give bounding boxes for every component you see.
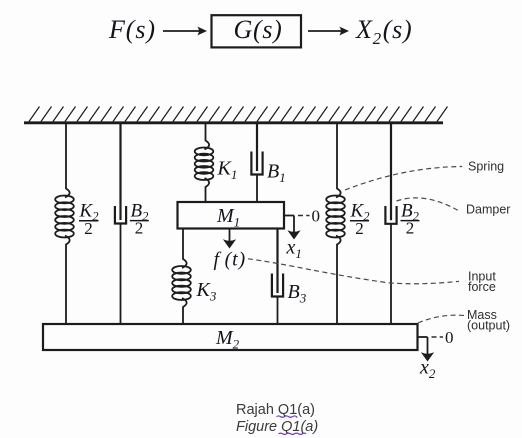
- ground: fixed ceiling support: [24, 121, 443, 124]
- wire: rod below B2/2 right: [390, 224, 392, 324]
- arrow x1 displacement: [293, 216, 295, 234]
- spring K1 coil: [195, 148, 214, 181]
- wire: rod above K2/2 left: [65, 124, 70, 198]
- wire: rod below B2/2 left: [120, 224, 122, 325]
- svg-text:force: force: [468, 280, 496, 294]
- wire: rod above K2/2 right: [336, 124, 341, 198]
- svg-text:B1: B1: [267, 161, 286, 186]
- svg-text:0: 0: [445, 328, 454, 347]
- svg-text:Damper: Damper: [466, 203, 510, 217]
- svg-text:M1: M1: [216, 205, 240, 230]
- svg-text:x1: x1: [286, 237, 302, 262]
- svg-text:2: 2: [355, 219, 364, 238]
- wire: step at right of M2 to reference 0: [418, 336, 428, 338]
- damper B3 cup: [272, 274, 283, 297]
- damper B2/2 right cup: [385, 206, 396, 224]
- wire: step at right of M1 to reference 0: [284, 215, 294, 217]
- svg-text:(output): (output): [467, 319, 510, 333]
- wire: arrow F(s) to block: [163, 30, 202, 32]
- damper B1 cup: [251, 152, 262, 175]
- svg-text:K1: K1: [217, 158, 238, 183]
- arrow f(t) input force: [229, 229, 231, 243]
- svg-text:2: 2: [84, 219, 93, 238]
- svg-text:F(s): F(s): [108, 15, 156, 44]
- svg-text:2: 2: [406, 219, 415, 238]
- spellcheck squiggle line 1: [277, 416, 298, 417]
- svg-text:M2: M2: [215, 327, 240, 352]
- svg-text:X2(s): X2(s): [355, 15, 412, 48]
- mass M1 box: [178, 202, 285, 229]
- value label K2/2 left: [79, 201, 99, 238]
- node 0 reference at M1: [298, 215, 310, 217]
- wire: rod below K2/2 right: [336, 236, 341, 325]
- leader line to Mass (output) annotation: [418, 315, 464, 323]
- wire: rod below B1: [256, 175, 258, 203]
- value label K2/2 right: [350, 201, 370, 238]
- wire: rod below B3: [277, 297, 279, 325]
- wire: rod above K3: [182, 229, 187, 269]
- svg-text:Figure Q1(a): Figure Q1(a): [236, 419, 318, 435]
- svg-text:K3: K3: [196, 279, 217, 304]
- wire: rod above K1: [205, 124, 210, 150]
- svg-text:2: 2: [135, 219, 144, 238]
- arrow x2 displacement: [427, 337, 429, 356]
- wire: piston rod above B3: [276, 229, 278, 294]
- leader line to Damper annotation: [397, 198, 460, 211]
- leader line to Spring annotation: [345, 167, 462, 191]
- node 0 reference at M2: [432, 336, 444, 338]
- value label B2/2 left: [130, 200, 149, 237]
- wire: rod below K1: [205, 178, 210, 202]
- svg-text:x2: x2: [419, 357, 436, 382]
- damper B2/2 left cup: [115, 206, 126, 224]
- leader line to Input force annotation: [248, 259, 459, 284]
- ground hatching: [29, 107, 448, 122]
- svg-text:Spring: Spring: [468, 160, 504, 174]
- spellcheck squiggle line 2: [279, 433, 307, 434]
- svg-text:0: 0: [312, 207, 321, 226]
- mass M2 box (output mass): [43, 324, 418, 350]
- block G(s) transfer function box: [212, 15, 302, 47]
- value label B2/2 right: [401, 200, 420, 237]
- wire: arrow block to X2(s): [308, 30, 344, 32]
- svg-text:f (t): f (t): [214, 249, 246, 271]
- spring K2/2 right coil: [326, 196, 345, 238]
- wire: piston rod above B2/2 right: [390, 124, 392, 220]
- wire: piston rod above B1: [256, 124, 258, 171]
- spring K2/2 left coil: [55, 196, 74, 238]
- wire: rod below K2/2 left: [65, 236, 70, 325]
- svg-text:Rajah Q1(a): Rajah Q1(a): [236, 402, 315, 418]
- svg-text:G(s): G(s): [234, 15, 283, 44]
- wire: piston rod above B2/2 left: [119, 124, 121, 220]
- spring K3 coil: [172, 266, 191, 300]
- svg-text:B3: B3: [288, 281, 307, 306]
- wire: rod below K3: [182, 298, 187, 324]
